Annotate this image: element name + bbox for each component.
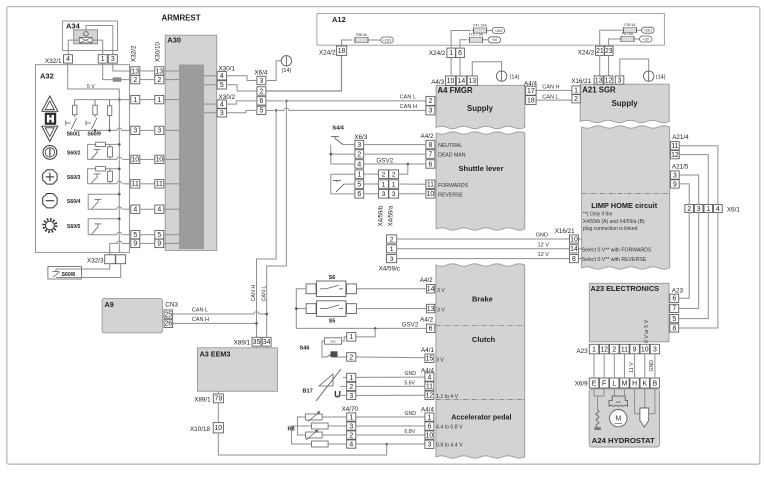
svg-text:X6/4: X6/4: [254, 70, 267, 77]
svg-text:2: 2: [259, 88, 263, 95]
svg-text:12: 12: [600, 346, 608, 353]
svg-text:X4/59/c: X4/59/c: [379, 265, 400, 272]
svg-text:3: 3: [157, 128, 161, 135]
svg-text:6,8V: 6,8V: [404, 429, 415, 435]
svg-text:(14): (14): [510, 75, 520, 81]
svg-text:3: 3: [357, 142, 361, 149]
svg-text:M: M: [622, 380, 628, 387]
svg-text:5 V: 5 V: [87, 84, 95, 90]
svg-text:DEAD MAN: DEAD MAN: [438, 153, 466, 159]
svg-text:+15/1: +15/1: [644, 29, 653, 33]
svg-text:F28 5A: F28 5A: [624, 23, 636, 27]
svg-text:**) Only if the: **) Only if the: [583, 212, 613, 218]
svg-text:3: 3: [349, 423, 353, 430]
svg-text:X24/2: X24/2: [319, 49, 336, 56]
svg-text:CAN H: CAN H: [542, 85, 559, 91]
svg-text:X89/1: X89/1: [234, 339, 251, 346]
svg-text:1: 1: [349, 375, 353, 382]
svg-text:10: 10: [447, 78, 455, 85]
svg-text:8: 8: [672, 325, 676, 332]
svg-text:7: 7: [672, 306, 676, 313]
svg-text:5: 5: [220, 82, 224, 89]
svg-text:S6: S6: [329, 275, 336, 281]
svg-text:79: 79: [215, 396, 223, 403]
svg-text:Select 0 V** with REVERSE: Select 0 V** with REVERSE: [582, 257, 647, 263]
svg-text:0.8 to 4.4 V: 0.8 to 4.4 V: [436, 443, 463, 449]
svg-text:X4/59/a: X4/59/a: [389, 205, 395, 226]
svg-text:1: 1: [357, 171, 361, 178]
svg-text:X6/3: X6/3: [354, 134, 367, 141]
svg-text:A3 EEM3: A3 EEM3: [200, 349, 231, 358]
svg-text:11: 11: [156, 181, 163, 188]
svg-text:X4/59/b (A) and X4/59/a (B): X4/59/b (A) and X4/59/a (B): [583, 219, 645, 225]
svg-text:10: 10: [641, 346, 649, 353]
svg-text:4: 4: [349, 441, 353, 448]
svg-text:3: 3: [392, 191, 396, 198]
svg-text:4.4 to 0.8 V: 4.4 to 0.8 V: [436, 424, 463, 430]
svg-text:34: 34: [263, 339, 271, 346]
svg-text:X10/18: X10/18: [190, 426, 210, 433]
svg-text:35: 35: [253, 339, 261, 346]
svg-text:X4/70: X4/70: [342, 406, 359, 413]
svg-text:A4 FMGR: A4 FMGR: [438, 86, 473, 95]
svg-text:21: 21: [596, 48, 604, 55]
svg-text:1: 1: [706, 206, 710, 213]
svg-text:Clutch: Clutch: [472, 335, 496, 344]
svg-text:3: 3: [220, 110, 224, 117]
svg-text:0 V or 5 V: 0 V or 5 V: [644, 319, 650, 343]
svg-text:2: 2: [612, 346, 616, 353]
svg-text:S60/4: S60/4: [67, 199, 81, 205]
svg-text:1: 1: [101, 56, 105, 63]
svg-text:A23 ELECTRONICS: A23 ELECTRONICS: [591, 284, 660, 293]
svg-text:6: 6: [458, 50, 462, 57]
svg-text:23: 23: [605, 48, 613, 55]
svg-text:6: 6: [428, 161, 432, 168]
svg-text:2: 2: [349, 384, 353, 391]
svg-text:Shuttle lever: Shuttle lever: [458, 164, 503, 173]
svg-text:14: 14: [458, 78, 466, 85]
svg-text:CAN L: CAN L: [542, 94, 558, 100]
svg-text:6: 6: [259, 98, 263, 105]
svg-text:4: 4: [357, 161, 361, 168]
svg-text:1: 1: [390, 246, 394, 253]
svg-text:ARMREST: ARMREST: [162, 13, 201, 22]
svg-text:9: 9: [633, 346, 637, 353]
svg-text:2: 2: [349, 432, 353, 439]
svg-text:A9: A9: [105, 300, 114, 309]
svg-text:5: 5: [157, 232, 161, 239]
svg-text:1.1 to 4 V: 1.1 to 4 V: [436, 394, 459, 400]
svg-text:X4/59/b: X4/59/b: [379, 205, 385, 226]
svg-text:K: K: [642, 380, 647, 387]
svg-text:A4/2: A4/2: [420, 277, 433, 284]
svg-text:A24 HYDROSTAT: A24 HYDROSTAT: [592, 436, 655, 445]
svg-text:3: 3: [618, 77, 622, 84]
svg-text:5.6V: 5.6V: [404, 380, 415, 386]
svg-text:H: H: [632, 380, 637, 387]
svg-text:GND: GND: [649, 360, 655, 372]
svg-text:1: 1: [449, 50, 453, 57]
svg-text:M: M: [615, 416, 621, 423]
svg-text:13: 13: [468, 78, 476, 85]
svg-text:8: 8: [428, 142, 432, 149]
svg-text:X32/2: X32/2: [131, 45, 138, 62]
svg-text:A23: A23: [576, 348, 588, 355]
svg-text:CAN L: CAN L: [192, 308, 208, 314]
svg-text:S60/5: S60/5: [67, 224, 81, 230]
svg-text:2: 2: [428, 98, 432, 105]
svg-text:F41 10A: F41 10A: [473, 23, 487, 27]
svg-text:F88 5A: F88 5A: [356, 33, 368, 37]
svg-text:13: 13: [595, 77, 603, 84]
svg-text:L: L: [612, 380, 616, 387]
svg-text:A30: A30: [167, 35, 181, 44]
svg-text:(14): (14): [656, 75, 666, 81]
svg-text:18: 18: [338, 48, 346, 55]
svg-text:10: 10: [131, 157, 139, 164]
svg-text:6: 6: [429, 326, 433, 333]
svg-text:F: F: [602, 380, 606, 387]
svg-text:+15/1: +15/1: [494, 29, 503, 33]
svg-text:S60/9: S60/9: [87, 132, 101, 138]
svg-text:Select 0 V** with FORWARDS: Select 0 V** with FORWARDS: [582, 248, 652, 254]
svg-text:10: 10: [427, 191, 435, 198]
svg-text:4: 4: [157, 207, 161, 214]
svg-text:X24/2: X24/2: [429, 50, 446, 57]
svg-text:X6/9: X6/9: [575, 381, 588, 388]
svg-text:A21/4: A21/4: [672, 134, 689, 141]
svg-text:6: 6: [427, 423, 431, 430]
svg-text:5: 5: [357, 181, 361, 188]
svg-text:+30: +30: [491, 38, 497, 42]
svg-text:plug connection is linked: plug connection is linked: [583, 226, 638, 232]
svg-text:(14): (14): [282, 68, 292, 74]
svg-text:1: 1: [349, 334, 353, 341]
svg-text:10: 10: [214, 425, 222, 432]
svg-text:A32: A32: [40, 72, 54, 81]
svg-text:3: 3: [111, 56, 115, 63]
svg-text:2: 2: [133, 77, 137, 84]
svg-text:11: 11: [671, 143, 678, 150]
svg-text:A12: A12: [332, 15, 346, 24]
svg-text:3: 3: [349, 393, 353, 400]
svg-text:24V: 24V: [616, 400, 621, 404]
svg-text:GND: GND: [404, 371, 416, 377]
svg-text:5: 5: [133, 232, 137, 239]
svg-text:3 V: 3 V: [437, 308, 445, 314]
svg-text:A34: A34: [66, 22, 81, 31]
svg-text:11: 11: [621, 346, 628, 353]
svg-text:1: 1: [427, 414, 431, 421]
svg-text:1: 1: [133, 97, 137, 104]
svg-text:CAN H: CAN H: [192, 317, 209, 323]
svg-text:14: 14: [427, 286, 435, 293]
svg-text:5: 5: [259, 108, 263, 115]
svg-text:4: 4: [716, 206, 720, 213]
svg-text:13: 13: [427, 306, 435, 313]
svg-text:X32/1: X32/1: [45, 58, 62, 65]
svg-text:CAN H: CAN H: [251, 285, 257, 302]
svg-text:12 V: 12 V: [537, 252, 549, 258]
svg-text:3: 3: [390, 256, 394, 263]
svg-text:1: 1: [349, 414, 353, 421]
svg-text:10: 10: [570, 236, 578, 243]
svg-text:4: 4: [133, 207, 137, 214]
svg-text:15: 15: [426, 356, 434, 363]
svg-text:X6/1: X6/1: [727, 207, 740, 214]
svg-text:F10 7.5A: F10 7.5A: [469, 33, 484, 37]
svg-text:1: 1: [574, 87, 578, 94]
svg-text:X30/10: X30/10: [155, 42, 162, 62]
svg-text:A21/5: A21/5: [672, 163, 689, 170]
svg-text:FORWARDS: FORWARDS: [438, 183, 469, 189]
svg-text:X89/1: X89/1: [194, 397, 211, 404]
svg-text:11: 11: [426, 383, 433, 390]
svg-text:B: B: [653, 380, 658, 387]
svg-text:4: 4: [66, 56, 70, 63]
svg-text:CAN H: CAN H: [400, 104, 417, 110]
svg-text:5: 5: [672, 316, 676, 323]
svg-text:CAN L: CAN L: [261, 286, 267, 302]
svg-text:11: 11: [132, 181, 139, 188]
svg-text:10: 10: [426, 432, 434, 439]
svg-text:E: E: [592, 380, 597, 387]
svg-text:4: 4: [427, 374, 431, 381]
svg-text:2: 2: [574, 96, 578, 103]
svg-text:Supply: Supply: [612, 99, 639, 108]
svg-text:3: 3: [259, 78, 263, 85]
svg-text:11: 11: [427, 182, 434, 189]
svg-text:+30: +30: [643, 37, 649, 41]
svg-text:A4/2: A4/2: [421, 133, 434, 140]
svg-text:12 V: 12 V: [537, 242, 549, 248]
svg-text:1: 1: [157, 97, 161, 104]
svg-text:S60/1: S60/1: [67, 132, 81, 138]
svg-text:F6 10A: F6 10A: [622, 32, 634, 36]
svg-text:REVERSE: REVERSE: [438, 192, 463, 198]
svg-text:2: 2: [687, 206, 691, 213]
svg-text:S46: S46: [300, 346, 310, 352]
svg-text:8: 8: [572, 256, 576, 263]
svg-text:3: 3: [428, 108, 432, 115]
svg-text:2: 2: [382, 171, 386, 178]
svg-text:9: 9: [157, 241, 161, 248]
svg-text:4: 4: [220, 101, 224, 108]
svg-text:S5: S5: [329, 319, 336, 325]
svg-text:X32/3: X32/3: [87, 258, 104, 265]
svg-text:3 V: 3 V: [436, 357, 444, 363]
svg-text:1: 1: [392, 181, 396, 188]
svg-text:10: 10: [155, 157, 163, 164]
svg-text:9: 9: [133, 241, 137, 248]
svg-text:11 V: 11 V: [629, 362, 635, 373]
svg-text:+15/1: +15/1: [383, 38, 392, 42]
svg-text:3 V: 3 V: [437, 288, 445, 294]
svg-text:B17: B17: [303, 389, 313, 395]
svg-text:Accelerator pedal: Accelerator pedal: [451, 412, 511, 421]
svg-text:26: 26: [164, 321, 172, 328]
svg-text:CN3: CN3: [165, 301, 178, 308]
svg-text:3: 3: [382, 191, 386, 198]
svg-text:2: 2: [157, 77, 161, 84]
svg-text:A21 SGR: A21 SGR: [582, 86, 616, 95]
svg-text:18: 18: [527, 97, 535, 104]
svg-text:12: 12: [671, 152, 679, 159]
svg-text:A4/4: A4/4: [421, 406, 434, 413]
svg-text:A4/2: A4/2: [420, 317, 433, 324]
svg-text:X16/21: X16/21: [571, 78, 591, 85]
svg-text:6: 6: [672, 296, 676, 303]
svg-text:2: 2: [357, 151, 361, 158]
svg-text:NEUTRAL: NEUTRAL: [438, 143, 462, 149]
svg-text:3: 3: [673, 172, 677, 179]
svg-text:S60/2: S60/2: [67, 151, 81, 157]
svg-text:3: 3: [133, 128, 137, 135]
svg-text:A4/3: A4/3: [431, 79, 444, 86]
svg-text:5k0: 5k0: [331, 340, 336, 344]
svg-text:CAN L: CAN L: [400, 95, 416, 101]
svg-text:GND: GND: [536, 233, 548, 239]
svg-text:3: 3: [427, 442, 431, 449]
svg-text:17: 17: [527, 88, 535, 95]
svg-text:Brake: Brake: [472, 295, 493, 304]
svg-text:13: 13: [131, 68, 139, 75]
svg-text:LIMP HOME circuit: LIMP HOME circuit: [591, 201, 658, 210]
svg-text:12: 12: [426, 393, 434, 400]
svg-text:A23: A23: [672, 288, 684, 295]
svg-text:X16/21: X16/21: [555, 228, 575, 235]
svg-text:GSV2: GSV2: [376, 157, 393, 164]
svg-text:1: 1: [382, 181, 386, 188]
svg-text:2: 2: [390, 236, 394, 243]
svg-text:S4/4: S4/4: [332, 126, 344, 132]
svg-text:2: 2: [392, 171, 396, 178]
svg-text:4: 4: [220, 73, 224, 80]
svg-text:9: 9: [673, 181, 677, 188]
svg-text:3: 3: [697, 206, 701, 213]
svg-text:GSV2: GSV2: [402, 322, 419, 329]
svg-text:7: 7: [428, 151, 432, 158]
svg-text:Supply: Supply: [467, 104, 494, 113]
svg-text:6: 6: [357, 191, 361, 198]
svg-text:13: 13: [155, 68, 163, 75]
svg-text:14: 14: [570, 246, 578, 253]
svg-text:GND: GND: [404, 411, 416, 417]
svg-text:X24/2: X24/2: [578, 49, 595, 56]
svg-text:12: 12: [605, 77, 613, 84]
svg-text:1: 1: [592, 346, 596, 353]
svg-text:25: 25: [164, 311, 172, 318]
svg-text:2: 2: [349, 354, 353, 361]
svg-text:A4/1: A4/1: [421, 347, 434, 354]
svg-text:S60/3: S60/3: [67, 175, 81, 181]
svg-text:3: 3: [653, 346, 657, 353]
